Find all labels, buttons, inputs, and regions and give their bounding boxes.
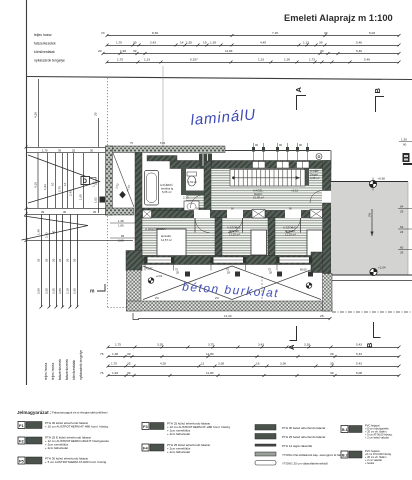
svg-text:kőművesfalak: kőművesfalak: [34, 50, 55, 54]
svg-text:16: 16: [63, 182, 67, 186]
balcony bottom parapet: [127, 301, 333, 311]
balcony elevation marker right: [306, 283, 312, 289]
legend swatch PTH30 belső: [255, 425, 325, 431]
legend box right 2: [341, 449, 392, 465]
svg-text:3,75: 3,75: [208, 343, 214, 347]
svg-text:11,84: 11,84: [225, 49, 233, 53]
svg-text:8,39: 8,39: [152, 31, 158, 35]
svg-text:F5: F5: [19, 459, 24, 464]
svg-text:5,03: 5,03: [369, 31, 375, 35]
svg-text:falszerkezetek: falszerkezetek: [65, 359, 69, 380]
pier with X 1: [252, 210, 265, 219]
small marker box at pebble corner: [100, 197, 106, 203]
void diamond symbol: [119, 191, 126, 198]
bed room3: [307, 230, 323, 256]
svg-text:60: 60: [403, 143, 407, 147]
projection dotted line left wall: [107, 78, 109, 307]
legend swatch PTH12: [255, 444, 312, 448]
svg-text:80,09: 80,09: [300, 268, 307, 272]
legend swatch YTONG 20: [255, 461, 328, 466]
room3 label: [283, 226, 297, 237]
svg-text:25: 25: [93, 210, 97, 214]
zigzag band 1: [28, 155, 100, 203]
svg-text:5,46: 5,46: [356, 49, 362, 53]
legend swatch PTH25 belső: [255, 434, 325, 440]
terrace bottom edge lines: [331, 274, 412, 276]
svg-text:30: 30: [63, 210, 67, 214]
dim line 11,10 under balcony: [133, 313, 332, 320]
frame horizontal border line: [27, 77, 412, 80]
svg-text:11,80: 11,80: [206, 352, 214, 356]
svg-text:2,59: 2,59: [37, 288, 41, 294]
svg-text:2,69: 2,69: [118, 239, 124, 243]
svg-text:29: 29: [400, 210, 404, 214]
svg-text:+0,60: +0,60: [378, 177, 386, 181]
svg-text:39: 39: [330, 352, 334, 356]
bottom rotated row labels: [44, 350, 83, 380]
svg-text:26: 26: [37, 258, 41, 262]
legend box right 1: [341, 424, 393, 440]
svg-text:falszerkezetek: falszerkezetek: [58, 359, 62, 380]
svg-text:60: 60: [400, 246, 404, 250]
leader dims left of wall: [110, 223, 136, 238]
bedroom 3 floor hatch: [275, 218, 322, 256]
svg-text:F4: F4: [143, 446, 148, 451]
svg-text:1,02: 1,02: [94, 197, 98, 203]
svg-text:3,35: 3,35: [52, 288, 56, 294]
svg-text:+ 2 cm belső vakolat: + 2 cm belső vakolat: [365, 436, 389, 440]
bottom dimension chain row 2: [107, 355, 401, 358]
svg-text:90: 90: [52, 230, 56, 234]
svg-text:+2,04: +2,04: [378, 266, 386, 270]
svg-text:Emeleti Alaprajz m 1:100: Emeleti Alaprajz m 1:100: [284, 13, 393, 23]
left main wall dark: [135, 153, 142, 265]
door arc room1: [195, 218, 210, 233]
left band rail middle (two lines with numbers): [26, 209, 110, 215]
zigzag band 2: [22, 216, 89, 240]
svg-text:teljes hossz: teljes hossz: [51, 362, 55, 380]
terrace door opening: [322, 191, 332, 204]
svg-text:nyílászárók tengelye: nyílászárók tengelye: [79, 350, 83, 380]
svg-text:11,20 m²: 11,20 m²: [285, 233, 296, 237]
svg-text:nyílászárók tengelye: nyílászárók tengelye: [34, 59, 65, 63]
bed room1: [157, 229, 186, 256]
svg-text:64: 64: [400, 225, 404, 229]
balcony left parapet: [127, 270, 142, 311]
door opening room1: [194, 210, 210, 218]
sill lines into balcony: [145, 265, 312, 271]
svg-text:PTH 25 belső teherhordó falaza: PTH 25 belső teherhordó falazat: [282, 435, 325, 439]
gép partition wall: [304, 169, 309, 186]
svg-text:1,39: 1,39: [284, 58, 290, 62]
svg-text:26: 26: [52, 258, 56, 262]
gép room floor hatch: [309, 169, 323, 186]
pier with X small left: [143, 210, 152, 218]
svg-text:1,13: 1,13: [303, 41, 309, 45]
band1 vertical dim lines with rotated labels: [38, 153, 99, 213]
svg-text:teljes hossz: teljes hossz: [44, 362, 48, 380]
bedroom 1 floor hatch: [142, 218, 215, 256]
svg-text:YTONG Pal előfalazott kар. ele: YTONG Pal előfalazott kар. elemgipsz kt …: [282, 453, 346, 457]
south-east corner block: [311, 252, 331, 273]
svg-text:10: 10: [51, 182, 55, 186]
svg-text:B: B: [373, 88, 382, 94]
svg-text:4,20: 4,20: [160, 362, 166, 366]
svg-text:26: 26: [58, 258, 62, 262]
left protrusion void diagonal: [113, 153, 134, 207]
svg-text:39: 39: [133, 41, 137, 45]
svg-text:23: 23: [400, 230, 404, 234]
svg-text:2,08 m²: 2,08 m²: [310, 176, 320, 180]
section mark B top: [376, 97, 385, 113]
bath WC partition: [181, 164, 186, 195]
property dash-dot line below terrace: [332, 311, 412, 313]
window connector lines: [254, 151, 308, 161]
svg-text:76: 76: [100, 371, 104, 375]
svg-text:5,46: 5,46: [364, 58, 370, 62]
svg-text:1,75: 1,75: [115, 343, 121, 347]
svg-text:5,05 m²: 5,05 m²: [162, 190, 172, 194]
terrace door label: [333, 194, 339, 202]
hallway labels: [253, 189, 299, 200]
svg-text:14: 14: [180, 41, 184, 45]
svg-text:64: 64: [400, 205, 404, 209]
svg-text:2,42: 2,42: [45, 232, 49, 238]
svg-text:26: 26: [45, 258, 49, 262]
svg-text:3,30: 3,30: [45, 288, 49, 294]
section mark A top: [297, 96, 307, 111]
svg-text:B.1: B.1: [342, 428, 348, 432]
outer wall left pebble: [106, 146, 113, 215]
svg-text:Falazóanyagok és a rétegrendek: Falazóanyagok és a rétegrendek jelölései: [52, 411, 108, 415]
bottom dimension chain row 1: [107, 346, 401, 349]
svg-text:6,197: 6,197: [190, 58, 198, 62]
svg-text:teljes hossz: teljes hossz: [34, 33, 52, 37]
washbasin: [184, 201, 199, 212]
svg-text:2,43: 2,43: [69, 190, 73, 196]
svg-text:2,43: 2,43: [150, 41, 156, 45]
dim 1,39/60 top right: [399, 138, 412, 147]
main top wall bar: [170, 161, 331, 169]
svg-text:1,93: 1,93: [120, 49, 126, 53]
svg-text:+ festés: + festés: [365, 461, 375, 465]
eaves line over upper terrace: [225, 150, 331, 152]
top dimension chain row 2: [106, 44, 401, 47]
legend F2: [18, 436, 109, 451]
window post ticks: [254, 143, 308, 147]
svg-text:1,39: 1,39: [210, 41, 216, 45]
window 2 in top wall: [277, 162, 290, 169]
section mark m left: [97, 284, 105, 291]
svg-text:14,57 m²: 14,57 m²: [161, 238, 172, 242]
svg-text:+2,12: +2,12: [291, 189, 299, 193]
svg-text:70: 70: [101, 31, 105, 35]
top dimension chain row 3: [102, 52, 401, 55]
svg-text:F1: F1: [19, 423, 24, 428]
svg-text:1,06: 1,06: [118, 224, 124, 228]
svg-text:25: 25: [94, 112, 98, 116]
svg-text:falszerkezetek: falszerkezetek: [34, 42, 56, 46]
svg-text:+ 2cm falburkolat: + 2cm falburkolat: [45, 446, 68, 450]
terrace slab gray: [331, 182, 408, 276]
svg-text:3,38: 3,38: [218, 362, 224, 366]
svg-text:1,75: 1,75: [116, 41, 122, 45]
rafter label 3: [398, 246, 412, 255]
balcony floor diagonals: [143, 266, 321, 300]
svg-text:39: 39: [319, 41, 323, 45]
svg-text:26: 26: [66, 258, 70, 262]
svg-text:1,70: 1,70: [42, 149, 48, 153]
svg-text:3,43: 3,43: [258, 343, 264, 347]
tiny door dims: [196, 207, 292, 210]
svg-text:41,37: 41,37: [146, 267, 153, 271]
terrace door arc: [310, 191, 323, 204]
frame vertical border line: [26, 0, 28, 385]
svg-text:4,49: 4,49: [260, 41, 266, 45]
svg-text:1,55: 1,55: [186, 41, 192, 45]
svg-text:4,26: 4,26: [34, 112, 38, 118]
svg-text:1,40: 1,40: [37, 229, 41, 235]
svg-text:F3: F3: [143, 424, 148, 429]
rafter label 1: [398, 205, 412, 214]
door arc room2: [228, 218, 243, 233]
svg-text:Jelmagyarázat :: Jelmagyarázat :: [17, 410, 52, 415]
svg-text:2%: 2%: [368, 212, 372, 217]
svg-text:kőművesfalak: kőművesfalak: [72, 359, 76, 380]
vertical dim line 25: [94, 112, 99, 147]
svg-text:5,46: 5,46: [356, 41, 362, 45]
outer wall corner pebble strip: [106, 208, 134, 215]
svg-text:10,95 m²: 10,95 m²: [253, 196, 264, 200]
svg-text:84: 84: [121, 234, 125, 238]
boiler symbol gép room: [316, 154, 322, 160]
svg-text:PTH 12 tégla válaszfal: PTH 12 tégla válaszfal: [282, 444, 312, 448]
svg-text:1,13: 1,13: [144, 58, 150, 62]
svg-text:5,43: 5,43: [356, 343, 362, 347]
balcony elevation marker left: [148, 274, 163, 283]
svg-text:29: 29: [400, 251, 404, 255]
south wall: [135, 256, 331, 265]
rafter label 2: [398, 225, 412, 234]
staircase: [230, 170, 305, 187]
rail end ticks: [25, 146, 28, 243]
svg-text:1,38: 1,38: [118, 219, 124, 223]
svg-text:39: 39: [41, 210, 45, 214]
wall type box right: [403, 153, 412, 165]
bedroom partition wall 2: [268, 218, 275, 256]
svg-text:16: 16: [256, 362, 260, 366]
band2 vertical dim lines with rotated labels: [42, 215, 78, 308]
legend F3: [142, 422, 231, 437]
svg-text:1,75: 1,75: [111, 362, 117, 366]
bedroom partition wall 1: [215, 218, 222, 256]
door opening room2: [227, 210, 243, 218]
door arc bath: [191, 195, 205, 209]
svg-text:3,36: 3,36: [280, 362, 286, 366]
section mark B bottom: [374, 322, 381, 338]
svg-text:B: B: [365, 342, 374, 348]
svg-text:m: m: [90, 289, 95, 295]
svg-text:1,93: 1,93: [43, 184, 47, 190]
balcony dashed line: [261, 276, 263, 301]
bathtub: [145, 171, 159, 206]
WC south thin wall: [186, 191, 204, 196]
svg-text:5,08: 5,08: [356, 371, 362, 375]
svg-text:19: 19: [203, 41, 207, 45]
svg-text:A: A: [294, 87, 303, 93]
pier with X 2: [310, 210, 323, 219]
svg-text:5,93: 5,93: [160, 141, 166, 145]
svg-text:3,18: 3,18: [304, 343, 310, 347]
svg-text:A.HÁLÓSZOBA.: A.HÁLÓSZOBA.: [145, 226, 166, 231]
slope arrow: [368, 209, 374, 236]
svg-text:35: 35: [127, 362, 131, 366]
svg-text:76: 76: [100, 352, 104, 356]
svg-text:39: 39: [58, 149, 62, 153]
terrace right edge: [407, 182, 409, 276]
bath north beam: [147, 156, 177, 162]
south window 1: [145, 257, 175, 263]
tiny dims above windows: [130, 141, 302, 147]
svg-text:1,75: 1,75: [117, 58, 123, 62]
svg-text:B.2: B.2: [342, 454, 348, 458]
svg-text:30: 30: [320, 49, 324, 53]
sill tiny labels: [146, 267, 307, 301]
svg-text:11,10: 11,10: [224, 314, 232, 318]
svg-text:2,70: 2,70: [58, 186, 62, 192]
svg-text:1,52 m²: 1,52 m²: [188, 180, 197, 184]
svg-text:F2: F2: [19, 439, 24, 444]
hallway floor hatch: [204, 169, 323, 211]
left band rail lower: [26, 240, 133, 242]
vertical dim line 4,26: [34, 79, 39, 147]
door arc room3: [286, 218, 301, 233]
south window 2: [211, 257, 247, 263]
svg-text:1,60: 1,60: [79, 194, 83, 200]
svg-text:39: 39: [133, 49, 137, 53]
svg-text:+ 5 cm AUSTROTHERM AT-H80 homl: + 5 cm AUSTROTHERM AT-H80 homl. hőszig.: [45, 460, 107, 464]
door opening room3: [285, 210, 301, 218]
svg-text:26: 26: [73, 258, 77, 262]
bed room2: [251, 230, 267, 255]
window posts above wall: [252, 147, 309, 152]
elevation marker top: [369, 177, 385, 191]
svg-text:5,43: 5,43: [356, 352, 362, 356]
window 3 in top wall: [297, 162, 310, 169]
legend F5: [18, 457, 107, 465]
svg-text:2,19: 2,19: [66, 288, 70, 294]
bottom dimension chain row 3: [107, 365, 401, 368]
svg-text:1,39: 1,39: [401, 138, 407, 142]
bath WC right wall: [204, 161, 211, 215]
svg-text:25: 25: [72, 149, 76, 153]
bath block bottom wall: [135, 208, 211, 215]
svg-text:39: 39: [330, 371, 334, 375]
svg-text:+ 10 cm AUSTROTHERM AT-H80 hom: + 10 cm AUSTROTHERM AT-H80 homl. hőszig.: [45, 425, 109, 429]
svg-text:20: 20: [98, 49, 102, 53]
gép room label: [310, 168, 320, 180]
svg-text:1,38: 1,38: [112, 352, 118, 356]
svg-text:3,35: 3,35: [157, 343, 163, 347]
svg-text:1,10: 1,10: [92, 181, 96, 187]
svg-text:5,43: 5,43: [356, 362, 362, 366]
legend F4: [142, 443, 210, 454]
svg-text:1,73: 1,73: [309, 58, 315, 62]
svg-text:4,19: 4,19: [34, 182, 38, 188]
south-west corner block: [126, 251, 142, 271]
legend swatch YTONG koszorú: [255, 452, 346, 457]
svg-text:+2,02: +2,02: [156, 274, 163, 278]
svg-text:30: 30: [90, 149, 94, 153]
right wall: [323, 161, 332, 274]
svg-text:YTONG 20 cm válaszfalelemekből: YTONG 20 cm válaszfalelemekből: [282, 462, 328, 466]
top dimension chain row 4: [106, 61, 401, 64]
bath room label: [160, 182, 189, 200]
svg-text:39: 39: [330, 362, 334, 366]
svg-text:+ 2cm falburkolat: + 2cm falburkolat: [167, 432, 190, 436]
outer wall top pebble: [106, 146, 226, 153]
detail box D: [81, 177, 96, 188]
top dimension chain row 1: [106, 34, 401, 37]
svg-text:39: 39: [127, 371, 131, 375]
room2 label: [227, 226, 241, 237]
toilet: [187, 172, 197, 186]
dotted connector to balcony: [108, 307, 127, 309]
svg-text:2,65: 2,65: [73, 288, 77, 294]
svg-text:39: 39: [324, 31, 328, 35]
svg-text:11,20 m²: 11,20 m²: [229, 233, 240, 237]
balcony right parapet: [323, 274, 333, 312]
bedroom 2 floor hatch: [222, 218, 268, 256]
svg-text:39: 39: [127, 352, 131, 356]
terrace top edge line: [331, 181, 408, 183]
svg-text:A: A: [287, 344, 296, 350]
middle wall hallway south: [142, 211, 323, 218]
legend F1: [18, 421, 109, 429]
svg-text:11,80: 11,80: [206, 371, 214, 375]
chimney block: [199, 154, 212, 167]
section mark A bottom: [290, 326, 297, 341]
left band rail top (two lines with numbers): [26, 148, 105, 153]
svg-text:1,93: 1,93: [112, 371, 118, 375]
bottom dimension chain row 4: [107, 374, 401, 377]
svg-text:28: 28: [320, 314, 324, 318]
top-left dimension row labels: [34, 33, 65, 63]
elevation marker bottom: [370, 266, 386, 276]
svg-text:+ 2cm falburkolat: + 2cm falburkolat: [167, 450, 190, 454]
extension line above plan: [162, 66, 164, 146]
sill blocks on balcony: [185, 272, 313, 277]
south window 3: [277, 257, 313, 263]
svg-text:PTH 30 belső teherhordó falaza: PTH 30 belső teherhordó falazat: [282, 426, 325, 430]
svg-text:2,13: 2,13: [183, 196, 189, 200]
svg-text:7,15: 7,15: [272, 31, 278, 35]
svg-text:3,05: 3,05: [58, 288, 62, 294]
window 1 in top wall: [253, 162, 266, 169]
svg-text:11: 11: [201, 362, 204, 366]
svg-text:1,23: 1,23: [258, 58, 264, 62]
south window jamb blocks: [145, 257, 313, 263]
